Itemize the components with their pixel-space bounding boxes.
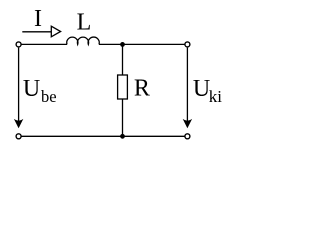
svg-text:U: U — [23, 76, 40, 102]
svg-text:U: U — [193, 76, 210, 102]
svg-text:ki: ki — [209, 87, 223, 106]
svg-text:I: I — [34, 6, 42, 32]
svg-text:L: L — [77, 9, 92, 35]
svg-text:be: be — [41, 87, 57, 106]
svg-text:R: R — [134, 76, 150, 102]
